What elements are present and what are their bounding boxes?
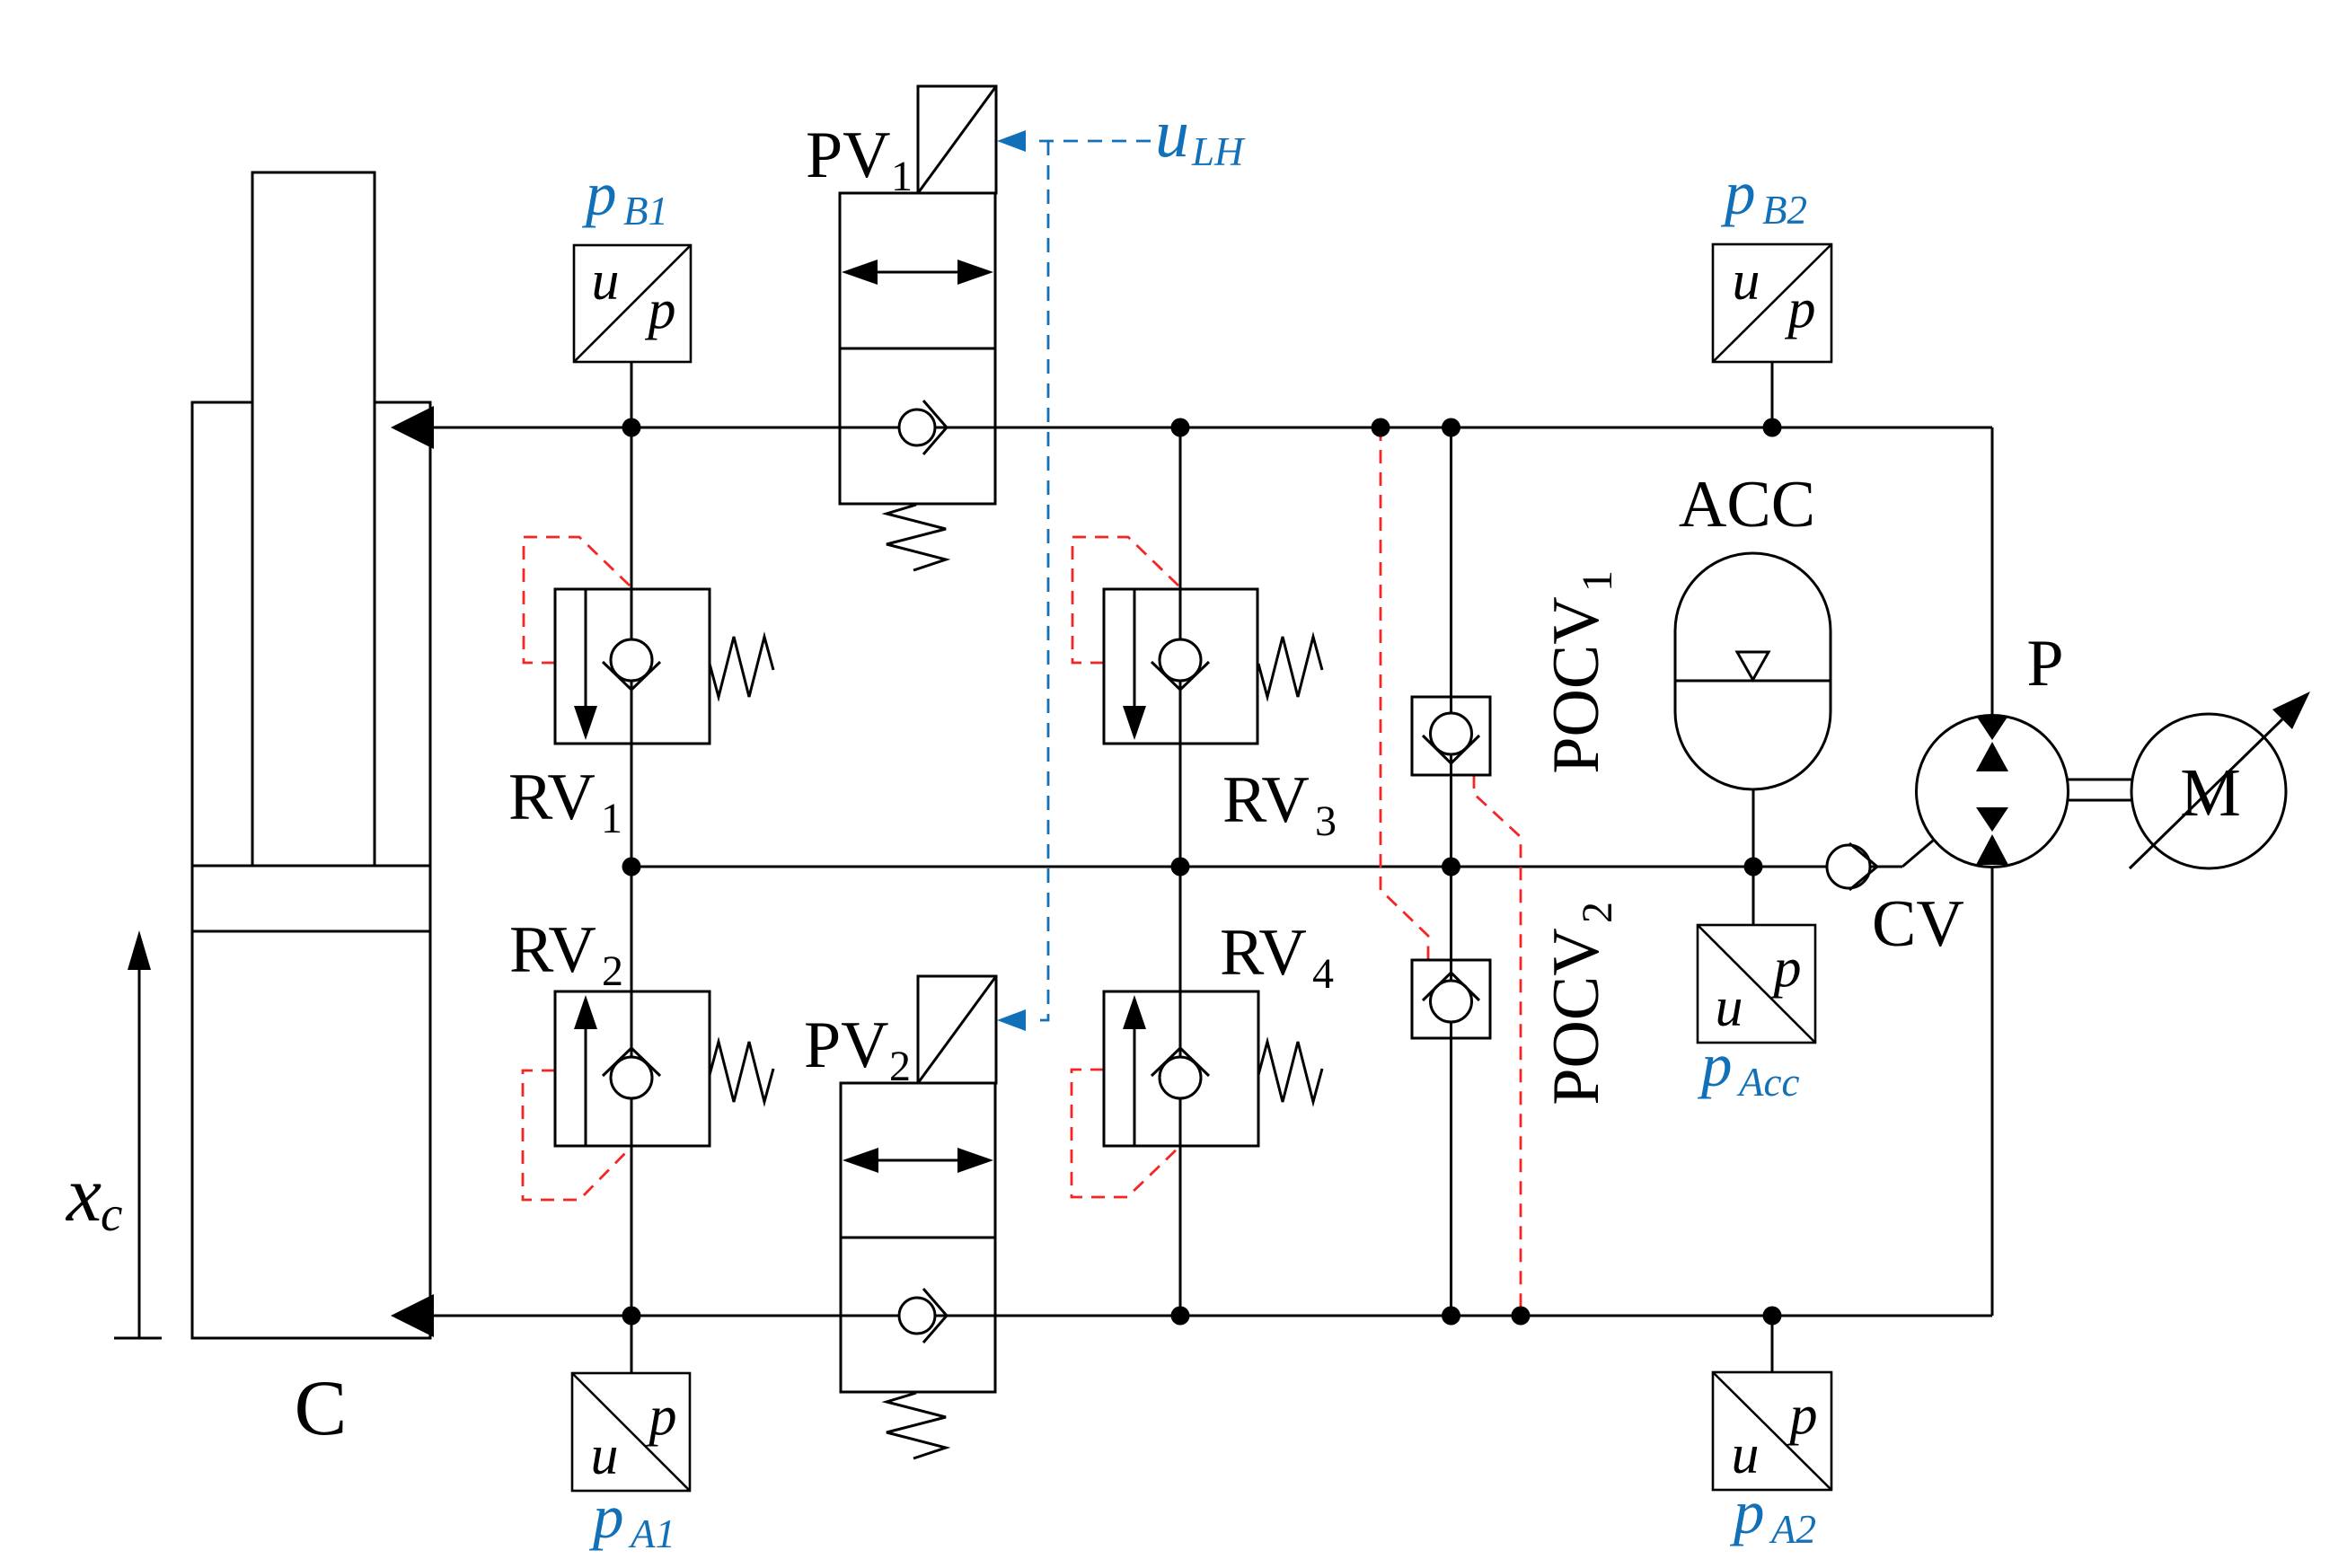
svg-text:p: p: [581, 160, 617, 228]
relief valve RV4 body: [1104, 991, 1258, 1146]
pump P circle: [1917, 716, 2069, 868]
RV1 seat: [603, 662, 660, 690]
RV2 flow path line: [585, 1029, 587, 1146]
svg-text:2: 2: [1574, 902, 1621, 923]
spring RV1: [710, 637, 773, 697]
wire CV to pump diagonal: [1902, 841, 1933, 867]
RV2 flow arrow (up): [574, 995, 597, 1029]
check valve seat in PV2: [923, 1289, 947, 1343]
node bus A / RV4: [1171, 1307, 1190, 1326]
arrowhead uLH into PV2 solenoid: [997, 1009, 1026, 1031]
wire POCV branch: [1450, 427, 1452, 1316]
node mid bus / RV3-RV4: [1171, 858, 1190, 876]
sensor pB1 box: [574, 245, 691, 362]
svg-text:x: x: [65, 1151, 101, 1238]
node bus A / pA1: [622, 1307, 641, 1326]
pump P top port triangles: [1976, 716, 2008, 740]
svg-text:p: p: [645, 279, 676, 340]
wire RV1 branch: [631, 427, 633, 867]
svg-text:u: u: [1716, 977, 1743, 1038]
wire RV4 branch: [1179, 867, 1182, 1316]
arrow into cylinder top port: [391, 406, 434, 449]
svg-text:M: M: [2180, 755, 2241, 831]
drive shaft pump-motor: [2067, 779, 2132, 781]
check valve CV ball: [1827, 845, 1870, 888]
pilot line POCV2 from bus B (red dashed): [1381, 427, 1428, 960]
spring RV3: [1258, 637, 1322, 697]
wire RV2 branch: [631, 867, 633, 1316]
svg-text:A2: A2: [1769, 1507, 1816, 1552]
check valve ball in PV1: [899, 410, 935, 445]
svg-text:c: c: [101, 1186, 122, 1241]
pilot operated check valve POCV2 body: [1412, 960, 1490, 1038]
electric motor M circle: [2131, 714, 2286, 868]
RV3 flow path line: [1134, 589, 1136, 709]
svg-text:2: 2: [889, 1043, 911, 1090]
RV2 seat: [603, 1048, 660, 1076]
pump P bottom port triangles: [1976, 807, 2008, 832]
RV1 check ball: [611, 639, 652, 681]
control signal vertical to PV2 (blue dashed): [1037, 141, 1048, 1020]
valve PV2 arrow heads: [843, 1148, 878, 1173]
svg-text:Acc: Acc: [1736, 1060, 1799, 1105]
solenoid PV1: [918, 86, 996, 193]
wire bottom bus A line: [395, 1315, 1992, 1317]
svg-text:1: 1: [1574, 570, 1621, 592]
svg-text:p: p: [646, 1386, 677, 1447]
svg-text:u: u: [592, 251, 620, 312]
sensor pA1 box: [572, 1373, 690, 1491]
svg-text:3: 3: [1315, 797, 1337, 845]
svg-text:RV: RV: [509, 913, 596, 987]
spring RV4: [1258, 1042, 1322, 1102]
sensor pA2 box: [1713, 1372, 1831, 1490]
motor variable arrow head: [2272, 692, 2310, 729]
RV4 flow path line: [1134, 1029, 1136, 1146]
wire right side upper (to pump P top port): [1991, 427, 1994, 718]
relief valve RV2 body: [555, 991, 710, 1146]
svg-text:PV: PV: [804, 1009, 889, 1082]
cylinder C barrel: [192, 402, 430, 1338]
RV3 flow arrow (down): [1123, 706, 1146, 740]
node bus B / RV3: [1171, 418, 1190, 437]
RV4 check ball: [1160, 1057, 1201, 1098]
arrowhead uLH into PV1 solenoid: [997, 130, 1026, 152]
solenoid PV2: [918, 976, 996, 1083]
relief valve RV3 body: [1104, 589, 1257, 744]
check valve seat in PV1: [923, 401, 947, 454]
svg-text:RV: RV: [508, 761, 596, 834]
pilot line RV1 (red dashed): [524, 537, 631, 663]
label POCV1 (rotated): [1540, 570, 1621, 774]
node bus B / POCV2 pilot: [1372, 418, 1390, 437]
pilot line RV2 (red dashed): [523, 1070, 631, 1200]
wire right side lower (pump P bottom port to bus A): [1991, 865, 1994, 1316]
cylinder C piston: [192, 866, 430, 931]
svg-text:4: 4: [1312, 950, 1334, 998]
svg-text:2: 2: [602, 947, 623, 995]
svg-text:p: p: [1785, 278, 1816, 339]
pilot line RV3 (red dashed): [1072, 537, 1180, 663]
pilot line RV4 (red dashed): [1072, 1070, 1179, 1197]
arrow into cylinder bottom port: [391, 1294, 434, 1337]
svg-text:C: C: [295, 1365, 348, 1452]
svg-text:p: p: [1729, 1478, 1765, 1546]
svg-text:1: 1: [891, 153, 913, 200]
svg-text:A1: A1: [628, 1511, 675, 1556]
wire top bus B1 line: [395, 427, 1992, 429]
svg-text:p: p: [1720, 159, 1756, 227]
node mid bus / ACC: [1744, 858, 1763, 876]
RV3 check ball: [1160, 639, 1201, 681]
node bus A / pA2: [1763, 1307, 1782, 1326]
motor variable arrow line: [2130, 719, 2282, 868]
POCV2 seat: [1423, 973, 1479, 1000]
valve PV2 body lower (check position): [841, 1238, 995, 1392]
valve PV2 body upper (arrow position): [841, 1083, 995, 1238]
relief valve RV1 body: [555, 589, 710, 744]
svg-text:P: P: [2026, 627, 2063, 700]
valve PV1 body lower (check position): [840, 348, 995, 504]
dimension arrowhead x_c: [128, 930, 151, 970]
RV4 flow arrow (up): [1123, 995, 1146, 1029]
wire RV3 branch: [1179, 427, 1182, 867]
svg-text:u: u: [1733, 251, 1760, 312]
svg-text:POCV: POCV: [1540, 928, 1613, 1105]
svg-text:RV: RV: [1220, 916, 1307, 990]
svg-text:u: u: [591, 1425, 619, 1486]
pilot line POCV1 to bus A (red dashed): [1474, 775, 1521, 1316]
svg-text:CV: CV: [1872, 887, 1964, 961]
control signal uLH to PV1 (blue dashed): [1037, 140, 1151, 143]
wire sensor pB1 drop: [631, 362, 633, 427]
label POCV2 (rotated): [1540, 902, 1621, 1106]
svg-text:u: u: [1732, 1424, 1760, 1485]
RV3 seat: [1151, 662, 1209, 690]
spring PV2: [887, 1393, 946, 1458]
svg-text:B2: B2: [1762, 188, 1807, 233]
svg-text:ACC: ACC: [1679, 468, 1815, 542]
svg-text:PV: PV: [806, 119, 891, 192]
svg-text:POCV: POCV: [1540, 596, 1613, 773]
wire sensor pB2 drop: [1771, 362, 1774, 427]
accumulator gas/fluid separator line: [1675, 680, 1831, 683]
sensor pB2 box: [1713, 244, 1831, 362]
valve PV1 arrow heads: [842, 260, 878, 285]
node bus B / pB2: [1763, 418, 1782, 437]
wire middle bus (accumulator line): [631, 866, 1902, 868]
node bus B / pB1: [622, 418, 641, 437]
RV4 seat: [1151, 1048, 1209, 1076]
wire sensor pAcc drop: [1752, 867, 1755, 925]
RV1 flow path line: [585, 589, 587, 709]
spring RV2: [710, 1042, 773, 1102]
svg-text:RV: RV: [1222, 763, 1310, 837]
node bus A / POCV2: [1442, 1307, 1460, 1326]
check valve CV seat: [1849, 843, 1877, 890]
wire sensor pA2 drop: [1771, 1316, 1774, 1372]
dimension base tick x_c: [114, 1337, 162, 1340]
POCV1 seat: [1423, 736, 1479, 763]
svg-text:p: p: [1697, 1031, 1733, 1099]
accumulator ACC shell: [1675, 553, 1831, 789]
node mid bus / POCV: [1442, 858, 1460, 876]
svg-text:B1: B1: [623, 189, 668, 233]
svg-text:LH: LH: [1191, 129, 1246, 174]
node mid bus / RV1-RV2: [622, 858, 641, 876]
node bus B / POCV1: [1442, 418, 1460, 437]
svg-text:u: u: [1155, 96, 1189, 172]
cylinder C piston rod: [252, 172, 375, 866]
wire ACC drop: [1752, 789, 1755, 867]
sensor pAcc box: [1698, 925, 1815, 1043]
svg-text:1: 1: [601, 795, 622, 842]
RV2 check ball: [611, 1057, 652, 1098]
valve PV1 body upper (arrow position): [840, 193, 995, 348]
check valve ball in PV2: [899, 1298, 935, 1334]
POCV2 ball: [1431, 981, 1472, 1022]
spring PV1: [887, 505, 946, 570]
wire sensor pA1 drop: [631, 1316, 633, 1373]
POCV1 ball: [1431, 713, 1472, 754]
svg-text:p: p: [1787, 1385, 1818, 1446]
pilot operated check valve POCV1 body: [1412, 697, 1490, 775]
node bus A / POCV1 pilot: [1512, 1307, 1531, 1326]
dimension line x_c: [138, 943, 141, 1338]
accumulator gas symbol (nabla): [1737, 652, 1769, 680]
svg-text:p: p: [588, 1483, 624, 1551]
svg-text:p: p: [1770, 938, 1802, 999]
RV1 flow arrow (down): [574, 706, 597, 740]
